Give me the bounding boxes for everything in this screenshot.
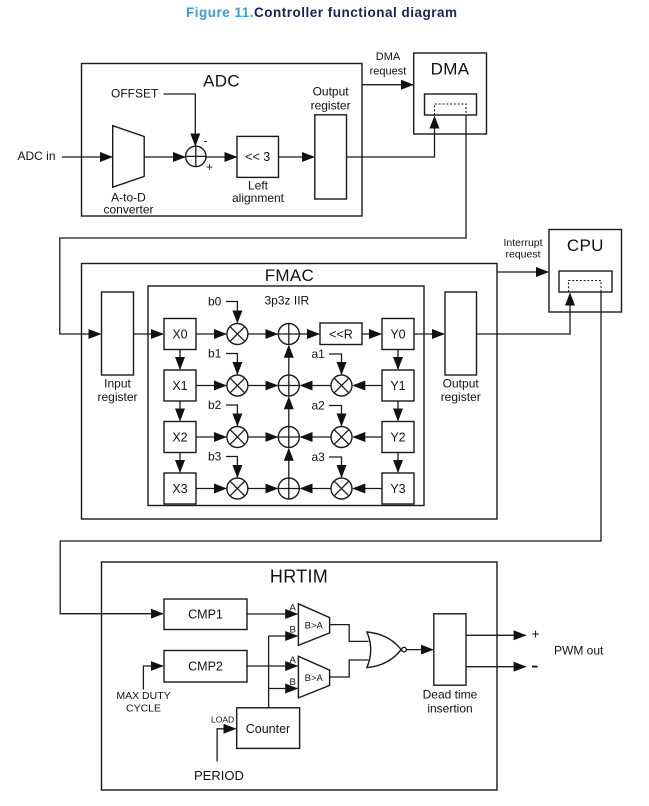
wire MAX DUTY CYCLE to CMP2 [143, 666, 162, 690]
svg-text:request: request [505, 249, 540, 261]
wire b3 to multiplier [226, 457, 237, 478]
svg-text:<<R: <<R [329, 328, 353, 342]
wire multiplier a2 to adder 3 [301, 436, 331, 438]
dead time insertion block [423, 614, 478, 716]
svg-text:b3: b3 [208, 450, 222, 464]
wire counter to comparator B inputs [268, 636, 270, 708]
wire a1 to multiplier [329, 354, 342, 374]
CPU register [559, 271, 612, 292]
wire Y1 to Y2 [397, 401, 399, 421]
multiplier a3 [331, 478, 352, 499]
wire DMA request [362, 84, 413, 86]
Y2 register [382, 422, 414, 453]
X1 register [164, 370, 196, 401]
wire shift R to Y0 [362, 333, 381, 335]
left shift block [232, 136, 285, 204]
wire Y0 to output register [414, 333, 444, 335]
wire multiplier b3 to adder 4 [248, 488, 277, 490]
wire comparator 2 input B [269, 688, 298, 690]
shift R block [320, 323, 362, 345]
comparator 2 [298, 656, 329, 698]
MAX DUTY CYCLE label [116, 690, 170, 715]
wire FMAC output register to CPU register [477, 294, 571, 335]
wire adder 1 to shift R [299, 333, 319, 335]
CMP1 block [164, 599, 247, 630]
wire OFFSET to summer [164, 94, 196, 146]
svg-text:register: register [311, 99, 351, 113]
X2 register [164, 422, 196, 453]
wire Y1 to multiplier a1 [353, 385, 382, 387]
3p3z IIR inner box [148, 286, 424, 506]
X3 register [164, 473, 196, 504]
svg-text:Interrupt: Interrupt [503, 237, 542, 249]
svg-text:-: - [204, 134, 208, 148]
svg-text:insertion: insertion [427, 701, 472, 715]
CMP2 block [164, 651, 247, 683]
svg-text:b0: b0 [208, 295, 222, 309]
svg-text:register: register [441, 390, 481, 404]
wire a2 to multiplier [329, 406, 342, 426]
wire PWM plus [466, 634, 526, 636]
wire multiplier a3 to adder 4 [301, 488, 331, 490]
wire Y3 to multiplier a3 [353, 488, 382, 490]
wire adder 4 to adder 3 [288, 449, 290, 478]
wire NOR to dead time [407, 649, 433, 651]
wire X1 to X2 [179, 401, 181, 421]
multiplier b3 [227, 478, 248, 499]
CPU block [549, 230, 622, 313]
svg-text:A: A [290, 603, 297, 614]
wire interrupt request [497, 271, 548, 273]
FMAC block [82, 264, 498, 520]
svg-text:Y3: Y3 [390, 482, 405, 496]
svg-text:Counter: Counter [246, 722, 290, 736]
svg-text:DMA: DMA [431, 60, 470, 79]
wire Y0 to Y1 [397, 350, 399, 370]
svg-text:CMP1: CMP1 [188, 608, 223, 622]
ADC block [82, 64, 363, 217]
FMAC output register [441, 292, 481, 404]
wire multiplier a1 to adder 2 [301, 385, 331, 387]
multiplier a1 [331, 375, 352, 396]
wire multiplier b1 to adder 2 [248, 385, 277, 387]
svg-text:B>A: B>A [305, 673, 324, 684]
FMAC input register [97, 292, 137, 404]
svg-text:Dead time: Dead time [423, 688, 478, 702]
multiplier b2 [227, 427, 248, 448]
svg-text:ADC: ADC [203, 72, 240, 91]
wire DMA to FMAC input register [60, 116, 466, 335]
svg-text:B: B [290, 677, 296, 688]
NOR gate [367, 632, 406, 668]
multiplier b1 [227, 375, 248, 396]
svg-text:A: A [290, 655, 297, 666]
svg-text:OFFSET: OFFSET [111, 87, 159, 101]
svg-text:CYCLE: CYCLE [126, 703, 161, 715]
wire ADC in [62, 156, 112, 158]
DMA register dotted window [435, 104, 467, 115]
svg-text:CPU: CPU [567, 236, 604, 255]
wire a3 to multiplier [329, 457, 342, 477]
multiplier b0 [227, 324, 248, 345]
wire X0 to X1 [179, 350, 181, 370]
wire X3 to multiplier b3 [196, 488, 226, 490]
HRTIM block [102, 562, 498, 790]
wire b0 to multiplier [226, 302, 237, 323]
CPU register dotted window [569, 281, 602, 293]
wire b1 to multiplier [226, 354, 237, 375]
wire CPU to CMP1 [60, 292, 601, 614]
Interrupt request label [503, 237, 542, 261]
adder 4 [278, 478, 299, 499]
minus output label [532, 666, 538, 668]
comparator 1 [298, 604, 329, 646]
wire X1 to multiplier b1 [196, 385, 226, 387]
svg-text:converter: converter [103, 203, 153, 217]
A-to-D converter [103, 126, 153, 217]
DMA request label [370, 51, 407, 78]
svg-text:DMA: DMA [376, 51, 401, 63]
wire converter to summer [144, 156, 185, 158]
wire multiplier b2 to adder 3 [248, 436, 277, 438]
svg-text:FMAC: FMAC [265, 266, 314, 285]
wire adder 2 to adder 1 [288, 346, 290, 375]
svg-text:X1: X1 [172, 379, 187, 393]
svg-text:request: request [370, 66, 407, 78]
wire multiplier b0 to adder 1 [248, 333, 277, 335]
svg-text:Output: Output [443, 377, 480, 391]
multiplier a2 [331, 427, 352, 448]
Y0 register [382, 319, 414, 350]
svg-text:HRTIM: HRTIM [270, 567, 328, 587]
wire comparator 1 input B [269, 635, 298, 637]
svg-text:3p3z IIR: 3p3z IIR [265, 294, 310, 308]
DMA register [425, 94, 477, 115]
comparator 2 input labels [290, 655, 297, 688]
wire X0 to multiplier b0 [196, 333, 226, 335]
comparator 1 input labels [290, 603, 297, 636]
wire X2 to X3 [179, 453, 181, 473]
wire shifter to output register [279, 156, 315, 158]
svg-text:+: + [206, 160, 213, 174]
wire CMP1 to comparator 1 input A [247, 613, 297, 615]
summing junction [186, 146, 206, 166]
svg-text:Input: Input [104, 377, 131, 391]
svg-text:PWM out: PWM out [554, 644, 604, 658]
wire comparator 1 to NOR [330, 625, 369, 642]
X0 register [164, 319, 196, 350]
svg-text:ADC in: ADC in [18, 149, 56, 163]
DMA block [414, 53, 487, 134]
wire comparator 2 to NOR [330, 660, 369, 677]
adder 3 [278, 427, 299, 448]
wire CMP2 to comparator 2 input A [247, 665, 297, 667]
svg-text:X0: X0 [172, 328, 187, 342]
wire PWM minus [466, 666, 526, 668]
wire summer to shifter [206, 156, 237, 158]
wire input register to X0 [134, 333, 164, 335]
svg-text:alignment: alignment [232, 191, 285, 205]
svg-text:X2: X2 [172, 431, 187, 445]
wire Y2 to Y3 [397, 453, 399, 473]
svg-text:PERIOD: PERIOD [194, 768, 244, 783]
counter block [237, 708, 300, 749]
svg-text:B>A: B>A [305, 620, 324, 631]
svg-text:MAX DUTY: MAX DUTY [116, 690, 170, 702]
adder 2 [278, 375, 299, 396]
svg-text:X3: X3 [172, 482, 187, 496]
svg-text:Y1: Y1 [390, 379, 405, 393]
svg-text:LOAD: LOAD [211, 715, 234, 725]
wire Y2 to multiplier a2 [353, 436, 382, 438]
Y3 register [382, 473, 414, 504]
svg-text:register: register [97, 390, 137, 404]
Y1 register [382, 370, 414, 401]
svg-text:Y2: Y2 [390, 431, 405, 445]
svg-text:Y0: Y0 [390, 328, 405, 342]
svg-text:a2: a2 [312, 399, 326, 413]
wire X2 to multiplier b2 [196, 436, 226, 438]
svg-text:<< 3: << 3 [245, 150, 270, 164]
svg-text:Output: Output [313, 84, 350, 98]
svg-text:CMP2: CMP2 [188, 660, 223, 674]
svg-text:Figure 11.Controller functiona: Figure 11.Controller functional diagram [186, 5, 458, 20]
svg-text:a3: a3 [312, 450, 326, 464]
wire adder 3 to adder 2 [288, 397, 290, 426]
wire output register to DMA register [347, 117, 435, 158]
svg-text:+: + [532, 626, 540, 642]
ADC output register [311, 84, 351, 199]
svg-text:b2: b2 [208, 398, 222, 412]
wire b2 to multiplier [226, 405, 237, 426]
svg-text:b1: b1 [208, 347, 222, 361]
svg-text:B: B [290, 625, 296, 636]
svg-text:a1: a1 [312, 347, 326, 361]
adder 1 [278, 324, 299, 345]
wire PERIOD to counter [217, 729, 235, 762]
